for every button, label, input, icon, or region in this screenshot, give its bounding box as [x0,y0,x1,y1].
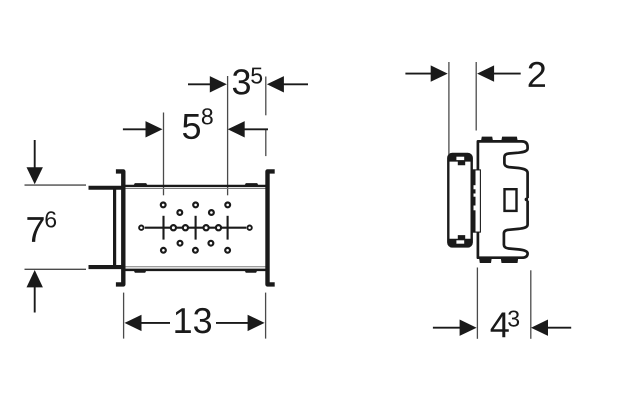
front view: body top edge [126,186,266,189]
extension line hole column right (x=227.6) [227,76,229,195]
side view: main clip body [478,141,528,257]
dimension 13 [125,308,265,333]
side view: mounting rail bracket [448,154,473,247]
front view: cross line 3 [227,216,229,240]
dimension 4.3 [433,310,571,337]
side view: bottom tabs [479,257,519,263]
dimension 3.5 [188,68,308,95]
front view: holes top row [161,203,230,208]
side view extension line 2 left [448,62,450,155]
front view: holes fourth row [178,241,214,246]
front view: cross line 1 [162,216,164,240]
front view: holes second row [177,210,213,215]
front view: top edge tabs [133,183,258,186]
side view extension line 2 right [475,62,477,131]
extension line 7.6 top [25,184,87,186]
extension line 7.6 bottom [25,268,87,270]
side view extension line 4.3 left [476,268,478,339]
side view: rectangular hole [505,189,517,211]
front view: bottom edge tabs [133,270,257,273]
dimension 5.8 [123,108,268,139]
front view: holes bottom row [161,248,230,253]
side view: top tabs [481,137,518,142]
extension line 13 left [123,293,125,339]
side view extension line 4.3 right [530,270,532,339]
side view: front plate profile [471,169,481,232]
front view: body bottom edge [126,267,266,270]
front view: left stub pipe [89,188,126,267]
front view: cross line 2 [195,216,197,240]
extension line 13 right [265,293,267,339]
front view: right bracket rail [268,171,275,284]
front view: hole pattern center line [145,227,246,229]
dimension 2 [405,62,545,87]
front view: holes middle row [139,225,252,230]
front view: left bracket rail [116,171,123,284]
extension line hole column left (x=163.5) [163,113,165,196]
extension line front right edge (x=265.8) [265,77,267,157]
dimension 7.6 [27,140,57,313]
side view: detent nub on right edge [525,198,531,202]
